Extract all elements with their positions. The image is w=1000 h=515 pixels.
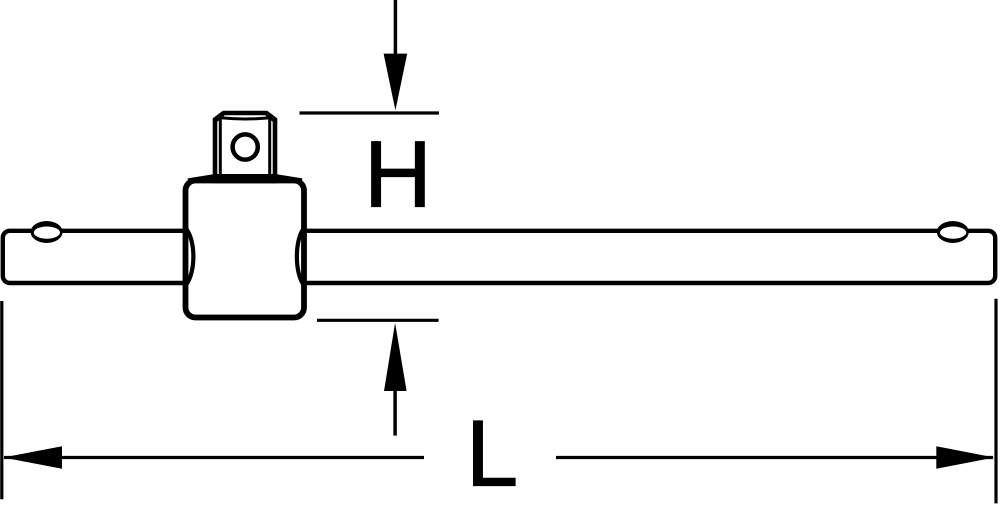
- handle bar: [3, 231, 995, 283]
- left end hole ellipse inner: [34, 227, 60, 239]
- tang corner fill right: [267, 114, 274, 120]
- H dimension leader line top: [394, 0, 398, 56]
- left end hole ellipse outer: [31, 221, 63, 243]
- H extension line top: [300, 111, 440, 114]
- L extension line left: [0, 301, 3, 499]
- tang corner fill left: [216, 114, 223, 120]
- bar waist arc left: [186, 228, 194, 286]
- right end hole ellipse outer: [937, 221, 969, 243]
- bar waist arc right: [297, 228, 304, 286]
- right end hole ellipse inner: [940, 227, 966, 239]
- square drive tang outline: [215, 113, 275, 181]
- H dimension leader line bottom: [393, 389, 397, 436]
- slider block: [186, 181, 305, 318]
- L arrowhead left: [3, 446, 62, 469]
- L arrowhead right: [936, 446, 994, 469]
- detent hole: [233, 134, 258, 159]
- H dimension arrowhead up: [384, 323, 407, 391]
- L dimension line left segment: [4, 456, 424, 459]
- tang inner face: [220, 118, 269, 181]
- block top shoulder line: [188, 177, 302, 181]
- L dimension line right segment: [556, 456, 993, 459]
- L extension line right: [994, 299, 997, 504]
- H extension line bottom: [317, 319, 439, 322]
- svg-text:H: H: [364, 122, 432, 227]
- svg-text:L: L: [466, 400, 518, 505]
- H dimension arrowhead down: [384, 54, 408, 111]
